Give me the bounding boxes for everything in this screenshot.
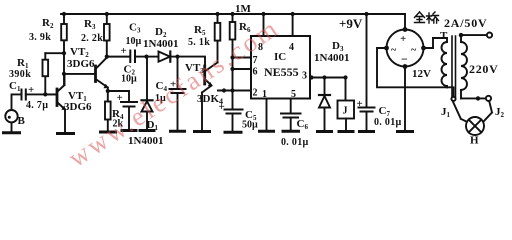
svg-text:J: J (343, 106, 348, 117)
wire mains bottom + terminal (461, 96, 491, 101)
svg-text:+: + (121, 45, 127, 57)
wire D2 to VT3 base (178, 57, 206, 66)
node pin4 rail (291, 12, 295, 16)
label C3 (121, 22, 142, 58)
node R3 top (105, 12, 109, 16)
ground R4 (101, 131, 116, 134)
capacitor C1 (22, 90, 58, 100)
svg-text:H: H (470, 135, 479, 147)
label B (18, 115, 26, 127)
node pin6 (230, 67, 234, 71)
svg-text:B: B (18, 115, 26, 127)
svg-text:J2: J2 (495, 106, 505, 119)
svg-text:R3: R3 (84, 18, 96, 31)
wire pin2 / VT3 emitter tie (218, 90, 251, 92)
transistor VT3 (202, 41, 218, 132)
diode D1 (142, 57, 153, 131)
resistor R1 (43, 53, 49, 94)
svg-text:390k: 390k (9, 69, 31, 80)
relay contact J1 (447, 87, 467, 122)
label R3 (81, 18, 103, 44)
svg-text:3DG6: 3DG6 (67, 58, 95, 70)
wire pin7 (233, 57, 252, 59)
svg-text:R2: R2 (42, 17, 54, 30)
node R5 top (215, 12, 219, 16)
ground bridge minus (398, 130, 413, 133)
resistor R5 (215, 14, 221, 41)
ground D3 (318, 130, 332, 133)
svg-text:3: 3 (302, 71, 307, 82)
svg-text:3DG6: 3DG6 (64, 101, 92, 113)
label C4 (155, 79, 176, 105)
watermark www.elecfans.com (63, 12, 285, 173)
svg-text:5: 5 (291, 89, 296, 100)
svg-text:2: 2 (253, 88, 258, 99)
node VT2 emitter / R4 (106, 89, 110, 93)
label VT1 (64, 90, 92, 113)
label D2 (143, 26, 178, 50)
node C7 rail (364, 12, 368, 16)
wire R1 top to R2 branch (45, 52, 64, 54)
svg-text:3. 9k: 3. 9k (29, 32, 51, 43)
node D3 top (309, 75, 347, 79)
label J2 (495, 106, 505, 119)
svg-text:1N4001: 1N4001 (143, 38, 178, 50)
node mains top (459, 33, 463, 37)
relay coil J (338, 101, 355, 132)
label C2 (117, 64, 138, 105)
label 12V (412, 68, 431, 80)
svg-text:4: 4 (289, 42, 294, 53)
node pin8 rail (261, 12, 265, 16)
lamp H (466, 117, 484, 135)
svg-text:1N4001: 1N4001 (314, 52, 349, 64)
label C5 (219, 101, 259, 131)
svg-text:~: ~ (391, 45, 397, 56)
label VT3 (185, 62, 223, 106)
svg-text:10µ: 10µ (121, 74, 137, 85)
node R1 bottom / VT1 base (43, 92, 47, 96)
ground pin1 (260, 130, 274, 133)
label VT2 (67, 46, 95, 70)
resistor R6 value 1M (230, 14, 236, 109)
label R2 (29, 17, 54, 43)
node B R2/VT2 base (62, 72, 66, 76)
ground VT1 emitter (58, 132, 74, 135)
svg-text:0. 01µ: 0. 01µ (281, 137, 309, 148)
svg-text:−: − (401, 52, 408, 66)
label J (343, 106, 348, 117)
diode D2 (147, 52, 178, 62)
wire +9V top rail (61, 13, 405, 15)
transformer 12V winding (433, 38, 447, 87)
svg-text:+: + (219, 101, 225, 113)
svg-text:T: T (440, 30, 448, 42)
node R6 top (230, 12, 234, 16)
svg-text:+9V: +9V (339, 16, 363, 31)
node R2 top (62, 12, 66, 16)
svg-text:12V: 12V (412, 68, 431, 80)
wire mains top + terminal (461, 33, 492, 38)
node emitter tie (222, 88, 226, 92)
ground C5 (225, 131, 241, 134)
wire pin3 output (310, 78, 346, 101)
capacitor C3 (107, 51, 147, 63)
node A R2/R1 (62, 51, 66, 55)
svg-text:C6: C6 (297, 118, 309, 131)
wire pin1 to ground (266, 99, 268, 132)
ground B (4, 131, 20, 134)
svg-text:+: + (400, 33, 406, 45)
ground C4 (171, 130, 185, 133)
microphone B (5, 94, 21, 132)
capacitor C2 (108, 91, 137, 130)
label R1 (9, 57, 31, 80)
label D1 (128, 119, 163, 147)
wire pin6 (233, 68, 252, 70)
resistor R4 (105, 91, 111, 132)
label jinqiao (bridge) (415, 12, 439, 23)
capacitor C6 on pin5 (281, 99, 301, 132)
node VT2 collector (105, 55, 109, 59)
node pin7 (230, 55, 234, 59)
svg-text:4. 7µ: 4. 7µ (26, 100, 48, 111)
ground J (339, 130, 353, 133)
svg-text:+: + (28, 84, 34, 96)
capacitor C4 (170, 57, 186, 131)
svg-text:+: + (117, 92, 123, 104)
transformer T core (452, 36, 456, 97)
label H (470, 135, 479, 147)
ground C6 (283, 130, 299, 133)
label T (440, 30, 448, 42)
relay contact J2 (484, 102, 492, 122)
label C1 (9, 80, 48, 111)
svg-text:2. 2k: 2. 2k (81, 33, 103, 44)
svg-text:10µ: 10µ (126, 36, 142, 47)
bridge polarity marks (391, 33, 417, 66)
ground C2 (122, 129, 136, 132)
ground VT3 emitter (195, 130, 210, 133)
svg-text:220V: 220V (469, 62, 498, 76)
svg-text:C3: C3 (129, 22, 141, 35)
label IC NE555 (253, 42, 308, 100)
bridge terminal dots (384, 27, 426, 69)
transformer 220V winding (461, 35, 467, 98)
label R6 (235, 3, 252, 34)
svg-text:~: ~ (411, 45, 417, 56)
svg-text:6: 6 (253, 67, 258, 78)
transistor VT1 (45, 74, 65, 133)
svg-text:+: + (357, 98, 363, 110)
label 220V (469, 62, 498, 76)
transistor VT2 (64, 58, 108, 92)
label R4 (112, 108, 124, 130)
resistor R3 (104, 14, 110, 57)
svg-text:C1: C1 (9, 80, 21, 93)
svg-text:2A/50V: 2A/50V (444, 16, 487, 30)
capacitor C5 (225, 110, 243, 133)
node mains bottom (476, 96, 480, 100)
svg-text:50µ: 50µ (242, 120, 258, 131)
bridge rectifier (377, 14, 447, 131)
label D3 (314, 40, 349, 64)
svg-text:1M: 1M (235, 3, 252, 15)
label C7 (357, 98, 402, 128)
svg-text:R5: R5 (194, 24, 206, 37)
node C3/D1 (144, 55, 148, 59)
node D2/C4 (175, 55, 179, 59)
label J1 (441, 106, 451, 119)
resistor R2 (61, 14, 67, 85)
label +9V (339, 16, 363, 31)
ground C7 (360, 130, 374, 133)
svg-text:NE555: NE555 (264, 65, 299, 79)
ground D1 (140, 129, 154, 132)
label 2A/50V (444, 16, 487, 30)
svg-text:5. 1k: 5. 1k (188, 37, 210, 48)
capacitor C7 (359, 14, 375, 131)
diode D3 (319, 78, 330, 132)
node pin2/C5 (230, 88, 234, 92)
op-amp U1 IC NE555 box (251, 14, 310, 99)
svg-text:J1: J1 (441, 106, 451, 119)
svg-text:0. 01µ: 0. 01µ (374, 117, 402, 128)
label C6 (281, 118, 309, 148)
label R5 (188, 24, 210, 48)
svg-text:IC: IC (274, 51, 286, 63)
